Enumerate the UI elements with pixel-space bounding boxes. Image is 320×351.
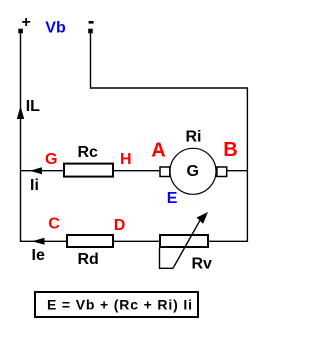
wire: right vertical bus bbox=[246, 88, 248, 242]
svg-text:B: B bbox=[223, 139, 237, 161]
svg-text:E = Vb + (Rc + Ri) Ii: E = Vb + (Rc + Ri) Ii bbox=[47, 296, 193, 312]
svg-text:G: G bbox=[45, 151, 57, 168]
rheostat Rv body bbox=[160, 235, 208, 247]
wire: bottom horizontal (Rd / Rv row) bbox=[20, 240, 247, 242]
svg-text:IL: IL bbox=[26, 98, 40, 115]
svg-text:Rd: Rd bbox=[78, 251, 99, 268]
svg-text:+: + bbox=[22, 14, 31, 31]
rheostat Rv wiper tail bbox=[160, 248, 174, 268]
svg-text:Ii: Ii bbox=[30, 177, 39, 194]
svg-text:Rv: Rv bbox=[192, 255, 213, 272]
svg-text:Rc: Rc bbox=[78, 144, 99, 161]
resistor Rc bbox=[64, 164, 113, 177]
svg-text:Ie: Ie bbox=[32, 247, 45, 264]
galvanometer left pin bbox=[160, 167, 170, 177]
minus sign label bbox=[89, 21, 94, 24]
svg-text:E: E bbox=[167, 190, 178, 207]
wire: vertical from - terminal down to top bus bbox=[90, 31, 92, 89]
resistor Rd bbox=[67, 235, 113, 247]
svg-text:C: C bbox=[48, 215, 60, 232]
svg-text:Vb: Vb bbox=[45, 20, 66, 37]
wire: left vertical from + terminal down to bottom-left corner bbox=[20, 31, 22, 242]
galvanometer right pin bbox=[217, 167, 227, 177]
rheostat Rv wiper arrowhead bbox=[197, 212, 209, 224]
svg-text:Ri: Ri bbox=[186, 128, 202, 145]
svg-text:A: A bbox=[151, 140, 165, 162]
- battery terminal bbox=[88, 29, 93, 34]
arrow Ie (current left on bottom wire) bbox=[32, 238, 45, 245]
svg-text:G: G bbox=[187, 163, 199, 180]
galvanometer G (circle) bbox=[170, 148, 216, 194]
formula box bbox=[35, 292, 198, 317]
arrow IL (current up on left wire) bbox=[17, 106, 24, 119]
svg-text:D: D bbox=[114, 217, 126, 234]
arrow Ii (current left on middle wire) bbox=[30, 167, 42, 174]
rheostat Rv wiper diagonal bbox=[173, 221, 200, 269]
wire: middle horizontal (Rc / galvanometer row) bbox=[20, 170, 247, 172]
+ battery terminal bbox=[18, 29, 23, 34]
svg-text:H: H bbox=[120, 151, 132, 168]
wire: top horizontal bus bbox=[90, 87, 248, 89]
